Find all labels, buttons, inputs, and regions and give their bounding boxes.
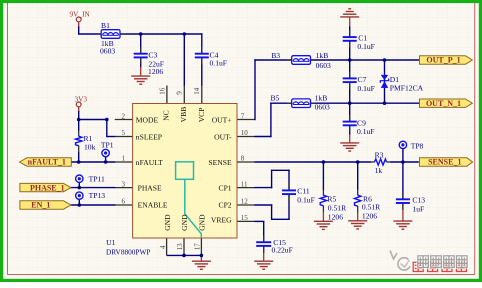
svg-text:0603: 0603 bbox=[100, 47, 115, 56]
svg-text:GND: GND bbox=[198, 214, 207, 231]
svg-text:NC: NC bbox=[161, 110, 170, 121]
svg-text:1206: 1206 bbox=[148, 67, 163, 76]
svg-text:PHASE_1: PHASE_1 bbox=[30, 183, 65, 192]
svg-text:C11: C11 bbox=[297, 187, 310, 196]
svg-text:ENABLE: ENABLE bbox=[138, 201, 168, 210]
svg-text:1uF: 1uF bbox=[412, 204, 424, 213]
svg-text:1kB: 1kB bbox=[316, 51, 329, 60]
svg-text:nFAULT: nFAULT bbox=[136, 158, 163, 167]
svg-text:OUT-: OUT- bbox=[214, 132, 232, 141]
svg-text:5: 5 bbox=[122, 129, 126, 137]
svg-text:14: 14 bbox=[193, 87, 201, 95]
svg-text:0.1uF: 0.1uF bbox=[357, 42, 375, 51]
svg-text:4: 4 bbox=[159, 245, 167, 249]
svg-text:0603: 0603 bbox=[316, 61, 331, 70]
svg-text:CP1: CP1 bbox=[219, 183, 232, 192]
svg-text:1kB: 1kB bbox=[315, 94, 328, 103]
svg-text:0.51R: 0.51R bbox=[328, 204, 347, 213]
svg-text:nSLEEP: nSLEEP bbox=[136, 132, 162, 141]
svg-text:OUT+: OUT+ bbox=[212, 116, 232, 125]
svg-text:1206: 1206 bbox=[328, 213, 343, 222]
svg-text:0603: 0603 bbox=[315, 102, 330, 111]
svg-text:DRV8800PWP: DRV8800PWP bbox=[106, 248, 150, 257]
svg-text:0.22uF: 0.22uF bbox=[272, 246, 293, 255]
svg-text:1206: 1206 bbox=[362, 211, 377, 220]
svg-text:TP1: TP1 bbox=[101, 140, 114, 149]
svg-text:B3: B3 bbox=[271, 51, 280, 60]
svg-text:TP13: TP13 bbox=[89, 191, 106, 200]
svg-text:0.1uF: 0.1uF bbox=[210, 59, 228, 68]
svg-text:1: 1 bbox=[122, 155, 126, 163]
svg-text:C7: C7 bbox=[358, 75, 367, 84]
svg-text:0.51R: 0.51R bbox=[362, 203, 381, 212]
svg-text:3V3: 3V3 bbox=[75, 94, 88, 103]
svg-text:16: 16 bbox=[158, 87, 166, 95]
svg-text:PMF12CA: PMF12CA bbox=[390, 83, 424, 92]
svg-text:12: 12 bbox=[241, 198, 249, 206]
svg-text:8: 8 bbox=[241, 155, 245, 163]
svg-text:TP8: TP8 bbox=[411, 142, 424, 151]
svg-text:GND: GND bbox=[163, 214, 172, 231]
svg-text:2: 2 bbox=[122, 112, 126, 120]
svg-text:15: 15 bbox=[241, 214, 249, 222]
svg-text:VREG: VREG bbox=[211, 216, 232, 225]
svg-text:C13: C13 bbox=[412, 196, 425, 205]
svg-text:9: 9 bbox=[176, 91, 184, 95]
svg-text:CP2: CP2 bbox=[219, 201, 232, 210]
svg-text:VCP: VCP bbox=[197, 108, 206, 123]
svg-text:U1: U1 bbox=[106, 238, 115, 247]
svg-text:nFAULT_1: nFAULT_1 bbox=[28, 158, 66, 167]
svg-text:GND: GND bbox=[180, 214, 189, 231]
svg-text:0.1uF: 0.1uF bbox=[357, 84, 375, 93]
svg-text:17: 17 bbox=[194, 243, 202, 251]
svg-text:6: 6 bbox=[122, 198, 126, 206]
svg-text:MODE: MODE bbox=[136, 116, 159, 125]
svg-text:B1: B1 bbox=[101, 21, 110, 30]
svg-text:11: 11 bbox=[241, 180, 248, 188]
svg-text:13: 13 bbox=[176, 243, 184, 251]
svg-text:0.1uF: 0.1uF bbox=[297, 195, 315, 204]
svg-text:10k: 10k bbox=[84, 142, 96, 151]
svg-text:PHASE: PHASE bbox=[138, 183, 162, 192]
svg-text:R5: R5 bbox=[327, 194, 336, 203]
svg-text:1k: 1k bbox=[375, 166, 383, 175]
svg-text:VBB: VBB bbox=[179, 107, 188, 123]
svg-text:SENSE: SENSE bbox=[208, 158, 232, 167]
svg-text:0.1uF: 0.1uF bbox=[357, 127, 375, 136]
svg-text:C3: C3 bbox=[148, 51, 157, 60]
svg-text:OUT_N_1: OUT_N_1 bbox=[426, 99, 461, 108]
svg-text:3: 3 bbox=[122, 180, 126, 188]
svg-text:R3: R3 bbox=[375, 151, 384, 160]
svg-text:10: 10 bbox=[241, 129, 249, 137]
svg-text:EN_1: EN_1 bbox=[31, 201, 50, 210]
svg-text:SENSE_1: SENSE_1 bbox=[428, 158, 461, 167]
svg-text:TP11: TP11 bbox=[89, 175, 105, 184]
svg-text:OUT_P_1: OUT_P_1 bbox=[426, 56, 460, 65]
svg-text:B5: B5 bbox=[271, 94, 280, 103]
svg-text:9V_IN: 9V_IN bbox=[70, 10, 91, 19]
svg-text:7: 7 bbox=[241, 112, 245, 120]
